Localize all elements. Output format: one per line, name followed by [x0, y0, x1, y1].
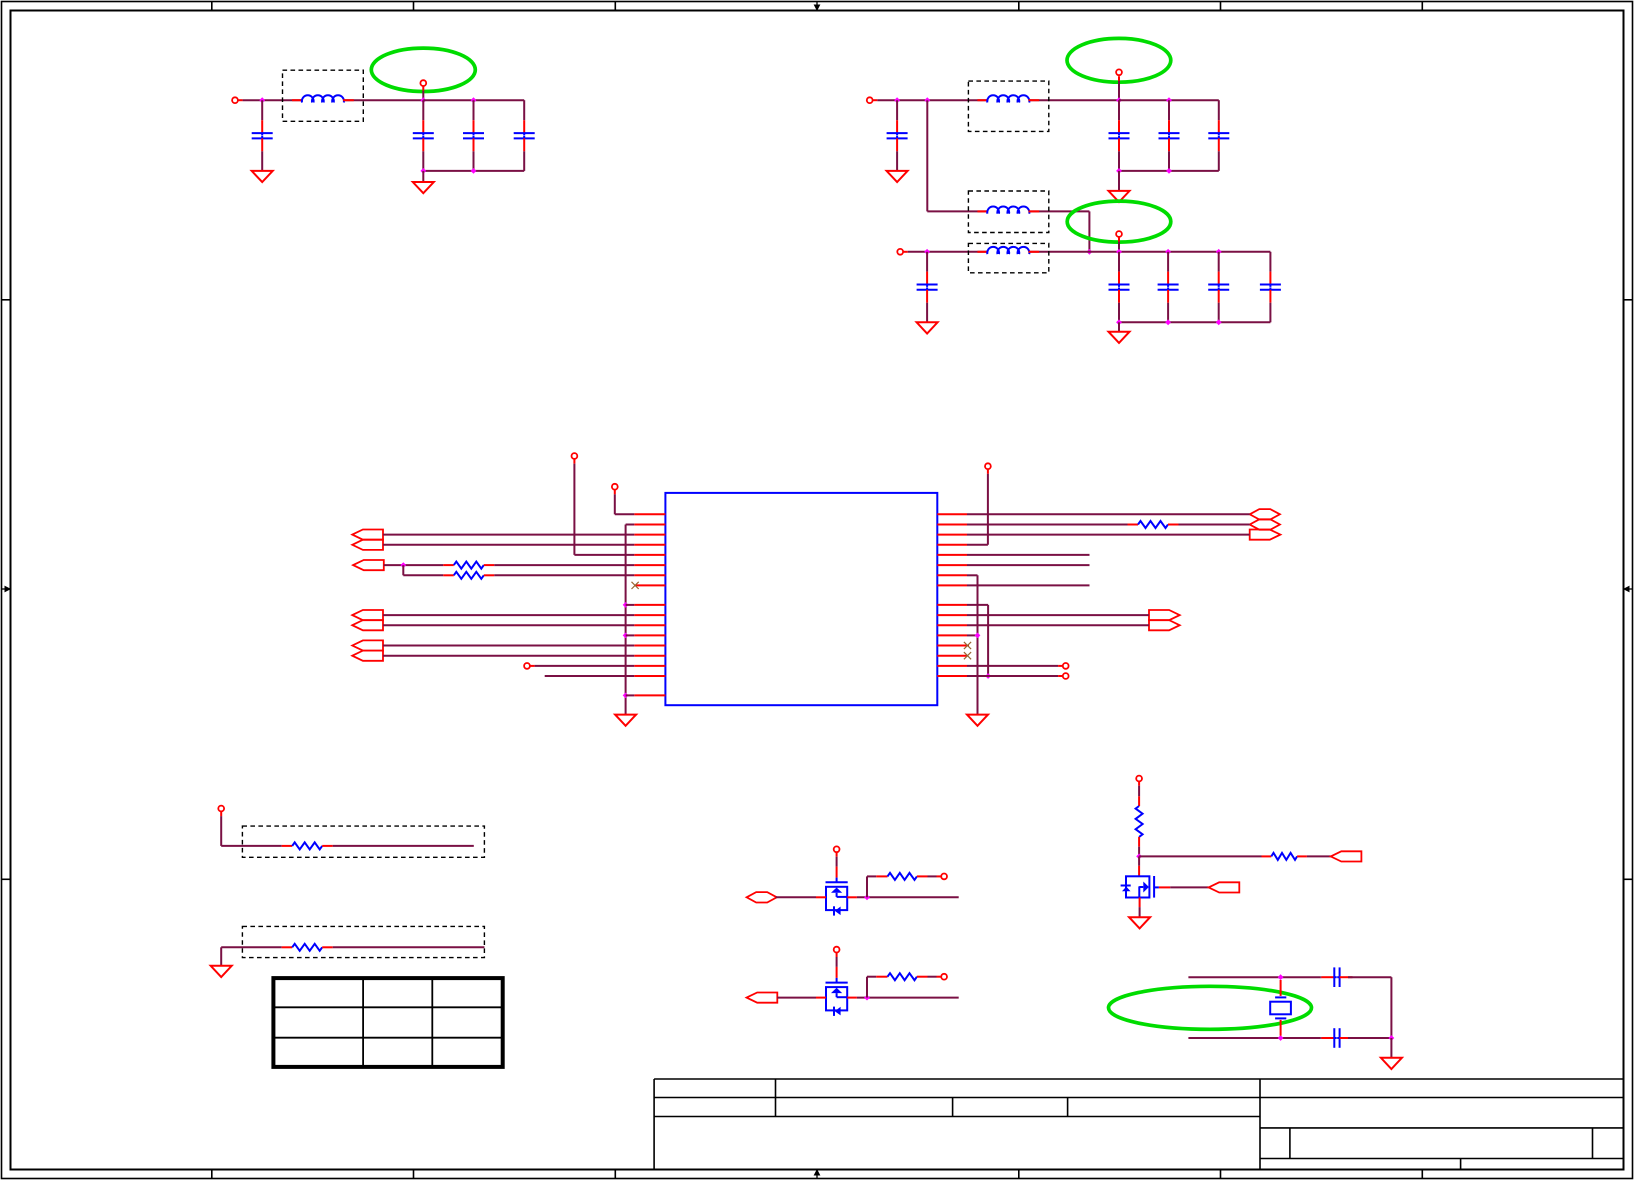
junction VSS r17 — [623, 693, 629, 699]
wire P7 stub — [573, 459, 575, 464]
junction B4 — [1166, 97, 1172, 103]
resistor R6 vertical — [1136, 796, 1143, 846]
capacitor C9 — [917, 252, 938, 322]
dashed box around R4 — [242, 826, 484, 857]
port P12 right q15 — [1063, 673, 1069, 679]
junction at CN2 — [400, 562, 406, 568]
ground below rail B — [1109, 191, 1130, 202]
wire CN8 to Q1 — [776, 896, 816, 898]
wire CX1 to corner — [1348, 977, 1391, 1038]
wire Q1 source to junction — [857, 896, 959, 898]
wire P5 stub — [903, 251, 908, 253]
junction A4 — [420, 168, 426, 174]
wire P11 stub — [1058, 665, 1063, 667]
wire Q2 source lead — [847, 997, 857, 999]
wire crystal bottom rail — [1188, 1037, 1320, 1039]
wire Q1 drain lead — [816, 896, 826, 898]
port P6 node row3 — [1116, 231, 1122, 237]
wire branch to FB3 — [927, 100, 988, 211]
wire pin q14 to P11 — [967, 665, 1058, 667]
resistor Q1 pullup — [888, 873, 917, 880]
wire Q2 gate red — [836, 967, 838, 978]
wire Q3 source to gnd — [1139, 907, 1141, 917]
IC U1 body — [665, 493, 937, 705]
wire F1 to R7 — [1139, 855, 1261, 857]
ground block D — [211, 966, 232, 977]
ground below C5 — [887, 171, 908, 182]
wire CN3b to pin — [383, 624, 634, 626]
junction B11 — [1216, 249, 1222, 255]
transistor Q2 — [826, 978, 848, 1016]
junction B1 at C5 — [894, 97, 900, 103]
connector CN3b row11 — [352, 620, 383, 630]
connector CN2 row6 — [353, 560, 384, 570]
junction G1 — [1278, 974, 1284, 980]
junction B6 — [1166, 168, 1172, 174]
connector CN11 — [1209, 882, 1240, 892]
wire pin q11 to bus dot — [967, 634, 978, 636]
junction B2 branch — [924, 97, 930, 103]
wire q8 over to q15 — [967, 605, 988, 676]
wire P4 stub — [1118, 76, 1120, 81]
junction B10 — [1165, 249, 1171, 255]
wire ground stub row3 — [1118, 322, 1120, 331]
junction B5 — [1116, 168, 1122, 174]
connector CN4b row14 — [352, 651, 383, 661]
capacitor C4 — [514, 100, 535, 171]
ground below rail row3 — [1109, 332, 1130, 343]
resistor R1 — [443, 562, 494, 569]
wire R3 to CN5b — [1179, 524, 1250, 526]
title block — [654, 1079, 1624, 1170]
wire P14 stub — [1138, 781, 1140, 786]
wire Q2 up to resistor — [867, 977, 876, 998]
wire CX2 to corner — [1348, 1037, 1391, 1039]
green highlight ellipse E4 — [1109, 986, 1312, 1029]
wire Q1 gate stub — [836, 852, 838, 857]
capacitor CX2 — [1321, 1028, 1353, 1048]
wire to ground D — [220, 947, 222, 966]
resistor R5 — [282, 944, 333, 951]
wire P4 to rail — [1118, 81, 1120, 100]
port P13 — [218, 806, 224, 812]
junction Q2 source — [864, 995, 870, 1001]
ground below C9 — [917, 322, 938, 333]
border center arrow bottom — [814, 1169, 821, 1179]
wire Q2 gate stub — [836, 953, 838, 958]
wire P6 stub — [1118, 237, 1120, 242]
green highlight ellipse E1 — [371, 48, 475, 91]
wire ground stub B — [1118, 171, 1120, 191]
wire Q3 source red — [1139, 898, 1141, 908]
wire rail B — [1119, 99, 1219, 101]
connector CN5a hexagon row1 — [1250, 509, 1280, 519]
wire R5 right end — [333, 946, 485, 948]
wire CN9 to Q2 — [777, 997, 816, 999]
no-connect X right q13 — [964, 652, 971, 659]
junction A1 at C1 — [259, 97, 265, 103]
ground below rail A — [413, 182, 434, 193]
wire CN2 branch down — [403, 565, 443, 575]
border zone ticks left and right — [2, 300, 1633, 880]
junction G3 — [1389, 1035, 1395, 1041]
port P9 left row15 — [524, 663, 530, 669]
resistor R2 — [443, 572, 494, 579]
ground below C1 — [252, 171, 273, 182]
junction B14 — [1216, 319, 1222, 325]
port P14 top — [1136, 776, 1142, 782]
border center arrow right — [1623, 586, 1633, 593]
wire R7 to CN10 — [1307, 855, 1331, 857]
wire P1 stub — [238, 99, 243, 101]
junction A5 — [471, 168, 477, 174]
connector CN5b hexagon row2 — [1250, 519, 1280, 529]
junction B12 — [1116, 319, 1122, 325]
resistor R7 — [1262, 853, 1307, 860]
wire P13 down and right — [221, 816, 282, 846]
wire bottom rail row3 — [1119, 321, 1270, 323]
capacitor C10 — [1109, 252, 1130, 322]
IC U1 right pin stubs — [937, 514, 967, 676]
wire Q1 gate red — [836, 867, 838, 878]
wire Q2 source to junction — [857, 997, 959, 999]
capacitor C7 — [1159, 100, 1180, 171]
junction B7 — [1087, 249, 1093, 255]
ferrite bead FB3 — [977, 206, 1039, 213]
border center arrow left — [2, 586, 12, 593]
port P_Q1 gate — [834, 846, 840, 852]
ferrite bead FB1 — [292, 95, 354, 102]
dashed box around FB2 — [968, 81, 1048, 131]
connector CN3a row10 — [352, 610, 383, 620]
junction B8 at C9 — [924, 249, 930, 255]
wire Q1 up to resistor — [867, 876, 876, 897]
wire P8 to pin row1 — [615, 494, 635, 514]
wire Q1 res lead left — [876, 875, 887, 877]
wire Q1 res lead right — [917, 875, 928, 877]
wire P10 stub — [987, 469, 989, 474]
port P1 input A — [232, 97, 238, 103]
wire bare row16 — [545, 675, 635, 677]
wire P1 to node A1 — [243, 99, 303, 101]
junction B13 — [1165, 319, 1171, 325]
wire pin q10 to CN7b — [967, 624, 1149, 626]
wire Q1 gate purple — [836, 857, 838, 867]
wire P2 to rail — [422, 91, 424, 101]
capacitor C11 — [1158, 252, 1179, 322]
wire FB3 to row3 rail — [1029, 211, 1090, 251]
wire rail3 after FB4 — [1029, 251, 1271, 253]
wire Q3 gate to CN11 — [1170, 886, 1208, 888]
junction VSS r9 — [623, 602, 629, 608]
wire P9 stub — [530, 665, 535, 667]
ground below Q3 — [1129, 917, 1150, 928]
port P5 input row3 — [897, 249, 903, 255]
wire VSS to pin r9 — [626, 604, 635, 606]
port P3 input B — [867, 97, 873, 103]
connector CN9 to Q2 — [747, 993, 778, 1003]
wire Q2 drain lead — [816, 997, 826, 999]
wire CN2 to R1 — [384, 564, 444, 566]
border center arrow top — [814, 2, 821, 12]
wire Q1 port stub — [937, 875, 942, 877]
connector CN10 — [1331, 851, 1362, 861]
capacitor C5 — [887, 100, 908, 171]
ground crystal — [1381, 1058, 1402, 1069]
wire VSS to pin r12 — [626, 634, 635, 636]
wire VSS to pin r17 — [626, 694, 635, 696]
port P_Q1 res — [941, 874, 947, 880]
capacitor C2 — [413, 100, 434, 171]
wire Q3 drain red — [1138, 866, 1140, 877]
revision table — [273, 978, 502, 1067]
wire FB2 to node B1 — [1029, 99, 1120, 101]
wire P14 to R6 — [1138, 786, 1140, 797]
wire P3 to node B1 — [877, 99, 988, 101]
port P11 right q14 — [1063, 663, 1069, 669]
connector CN6 row3 — [1250, 530, 1281, 540]
wire P13 stub — [220, 811, 222, 816]
wire Q2 res lead left — [876, 976, 887, 978]
wire bottom rail B — [1119, 170, 1219, 172]
wire R6 to junction — [1138, 847, 1140, 857]
port P7 above IC left — [572, 453, 578, 459]
border zone ticks top and bottom — [212, 2, 1423, 1179]
wire bottom rail A — [423, 170, 524, 172]
connector CN8 to Q1 — [747, 892, 777, 902]
ground VSS bus left — [615, 715, 636, 726]
capacitor C13 — [1260, 252, 1281, 322]
junction B9 — [1116, 249, 1122, 255]
port P4 node B output — [1116, 69, 1122, 75]
connector CN7a row q9 — [1149, 610, 1180, 620]
capacitor C3 — [463, 100, 484, 171]
wire R4 right end — [333, 845, 474, 847]
wire P5 to rail3 — [908, 251, 988, 253]
wire P8 stub — [614, 490, 616, 495]
ferrite bead FB2 — [977, 95, 1039, 102]
connector CN1b row4 — [352, 540, 383, 550]
capacitor C8 — [1208, 100, 1229, 171]
junction q15 — [985, 673, 991, 679]
green highlight ellipse E3 — [1067, 201, 1171, 242]
dashed box around FB4 — [968, 243, 1048, 272]
wire P12 stub — [1058, 675, 1063, 677]
wire Q1 source lead — [847, 896, 857, 898]
wire X stub q12 — [967, 645, 969, 647]
junction Q1 source — [864, 894, 870, 900]
wire pin q2 to CN6 — [967, 534, 1250, 536]
wire R1 to pin — [494, 564, 634, 566]
wire Q2 res lead right — [917, 976, 928, 978]
resistor Q2 pullup — [888, 973, 917, 980]
wire Q2 res to port — [928, 976, 937, 978]
wire P9 to pin — [535, 665, 635, 667]
resistor R4 — [282, 842, 333, 849]
dashed box around FB3 — [968, 191, 1048, 233]
junction A3 — [471, 97, 477, 103]
wire crystal top rail — [1188, 976, 1320, 978]
wire ground stub A — [422, 171, 424, 182]
port P8 above IC pin1 — [612, 484, 618, 490]
wire R2 to pin — [494, 574, 634, 576]
port P10 above IC right — [985, 463, 991, 469]
wire bare q5 — [967, 564, 1090, 566]
junction G2 — [1278, 1035, 1284, 1041]
wire CN4b to pin — [383, 655, 634, 657]
green highlight ellipse E2 — [1067, 38, 1171, 82]
wire F1 down to Q3 — [1138, 856, 1140, 865]
wire P3 stub — [873, 99, 878, 101]
junction VSS r12 — [623, 633, 629, 639]
wire to ground G — [1390, 1038, 1392, 1058]
junction F1 — [1136, 854, 1142, 860]
wire VSS bus left — [626, 525, 635, 715]
junction q11 bus — [975, 633, 981, 639]
wire P2 stub — [422, 86, 424, 91]
wire Q2 port stub — [937, 976, 942, 978]
wire CN4a to pin — [383, 645, 634, 647]
capacitor C6 — [1109, 100, 1130, 171]
wire pin q1 to R3 — [967, 524, 1128, 526]
junction B3 — [1116, 97, 1122, 103]
dashed box around FB1 — [283, 70, 364, 121]
ground right of IC — [967, 715, 988, 726]
crystal Y1 — [1270, 980, 1291, 1036]
wire Q1 res to port — [928, 875, 937, 877]
wire CN1b to pin — [383, 544, 634, 546]
port P2 node A output — [420, 80, 426, 86]
no-connect X right q12 — [964, 642, 971, 649]
transistor Q1 — [826, 878, 848, 916]
capacitor C12 — [1208, 252, 1229, 322]
wire P7 down to pin row5 — [574, 464, 634, 555]
wire rail A — [423, 99, 524, 101]
capacitor C1 — [252, 100, 273, 171]
wire Q2 gate purple — [836, 957, 838, 967]
IC U1 left pin stubs — [634, 514, 665, 695]
transistor Q3 — [1121, 876, 1159, 898]
port P_Q2 res — [941, 974, 947, 980]
wire bare q7 — [967, 584, 1090, 586]
no-connect X left pin — [632, 582, 639, 589]
wire pin q9 to CN7a — [967, 614, 1149, 616]
wire q6 to gnd bus — [967, 575, 978, 714]
wire P10 to pin q3 — [967, 474, 988, 545]
wire pin q0 to CN5a — [967, 513, 1250, 515]
connector CN1a row3 — [352, 530, 383, 540]
wire FB1 to node A1 — [343, 99, 423, 101]
wire pin q15 to P12 — [967, 675, 1058, 677]
wire P6 to rail3 — [1118, 242, 1120, 252]
wire bare q4 — [967, 554, 1090, 556]
capacitor CX1 — [1321, 967, 1353, 987]
wire CN1a to pin — [383, 534, 634, 536]
connector CN4a row13 — [352, 640, 383, 650]
connector CN7b row q10 — [1149, 620, 1180, 630]
port P_Q2 gate — [834, 947, 840, 953]
wire CN3a to pin — [383, 614, 634, 616]
junction A2 — [420, 97, 426, 103]
resistor R3 — [1128, 521, 1179, 528]
ferrite bead FB4 — [977, 247, 1039, 254]
dashed box around R5 — [242, 926, 484, 957]
wire left of R5 — [221, 946, 282, 948]
wire Q3 gate red — [1159, 886, 1170, 888]
